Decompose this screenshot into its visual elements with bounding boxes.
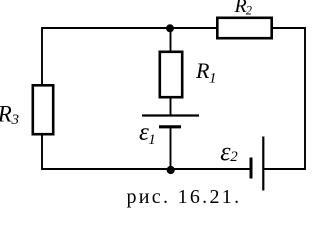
svg-text:2: 2 (230, 149, 238, 165)
svg-text:1: 1 (148, 132, 156, 148)
svg-text:1: 1 (209, 70, 217, 86)
svg-text:3: 3 (11, 112, 20, 128)
svg-text:R: R (234, 0, 247, 17)
svg-text:рис. 16.21.: рис. 16.21. (127, 186, 242, 208)
svg-text:R: R (195, 58, 210, 83)
svg-text:R: R (0, 102, 12, 127)
svg-text:2: 2 (246, 4, 252, 18)
